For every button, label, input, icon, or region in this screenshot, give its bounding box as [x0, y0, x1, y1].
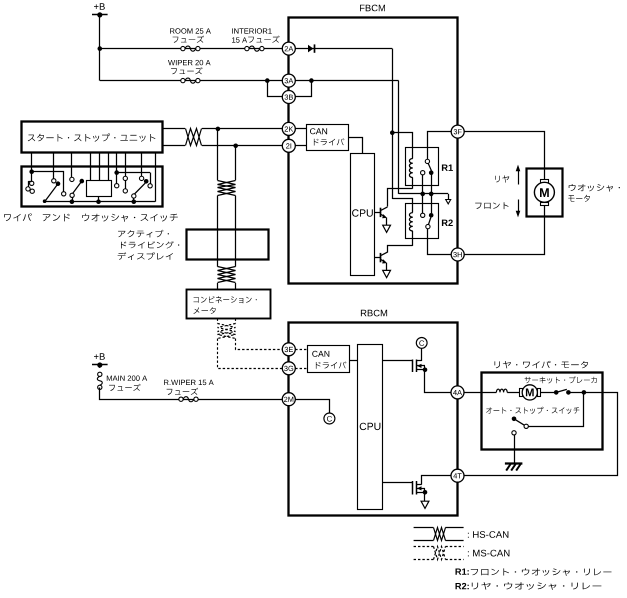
arrow to other circuit — [446, 200, 451, 204]
unit combination meter box — [187, 290, 271, 319]
wire R1 contacts down — [423, 173, 432, 194]
wire start-stop to 2I — [163, 145, 186, 147]
wire M2 drain to 4T — [422, 476, 451, 485]
wire contact common rail — [399, 192, 449, 200]
node 2I — [282, 139, 295, 152]
switch lever 2 — [70, 177, 84, 201]
twisted pair (vertical, upper) — [218, 181, 236, 196]
node 3F — [451, 125, 464, 138]
wire +B to 3A (y=80.6) — [100, 80, 283, 82]
diode D1 and wire 2A to R-coils feed — [295, 44, 392, 52]
relay R1 coil — [409, 159, 412, 189]
capacitor node C (M1 drain) — [416, 338, 427, 362]
wire +B to 2A (y=48.6) — [98, 46, 283, 51]
wire 3A to contacts common — [295, 78, 398, 194]
wire MAIN fuse to 2M — [100, 388, 283, 400]
twisted pair (vertical, lower) — [218, 267, 236, 283]
wire 3B inner link — [296, 81, 312, 97]
label rear wiper motor — [495, 361, 589, 369]
unit start-stop box — [22, 122, 163, 153]
wires start-stop unit to switch — [32, 153, 156, 202]
wire CAN-H down — [217, 129, 219, 180]
switch resistor block — [87, 181, 112, 202]
wire R1/R2 contact links — [423, 194, 432, 213]
node 3A — [282, 74, 295, 87]
label wiper and washer switch — [4, 213, 178, 221]
node 2K — [282, 122, 295, 135]
power supply +B (lower) — [92, 353, 108, 368]
wire 4A into motor — [464, 392, 496, 394]
circuit breaker — [554, 389, 586, 394]
wire coil feed vertical — [390, 49, 395, 199]
transistor Q1 — [374, 207, 387, 225]
capacitor node C (2M) — [324, 413, 335, 424]
fuse INTERIOR1 15 A — [232, 28, 272, 51]
washer motor box — [527, 169, 563, 217]
label 15A fuse — [232, 36, 280, 43]
relay R2 coil — [409, 213, 412, 246]
relay R1 contact — [421, 159, 434, 175]
wire M2 source to ground — [424, 492, 426, 501]
wire CAN-L down — [235, 146, 237, 181]
relay R1 box — [406, 148, 453, 186]
dashed wire to 3E — [236, 339, 283, 350]
wire Q2 collector to R2 coil — [388, 246, 413, 253]
wire washer motor to 3H — [465, 217, 545, 255]
wire 2M to capacitor — [296, 400, 330, 413]
IC CAN driver (RBCM) — [308, 346, 350, 373]
module RBCM box — [289, 310, 458, 516]
wires through display — [218, 229, 236, 266]
node 2M — [282, 393, 295, 406]
wire 3F to washer motor — [465, 132, 545, 169]
label front direction — [475, 202, 508, 209]
fuse MAIN 200 A — [97, 372, 147, 391]
relay R2 contact — [421, 213, 434, 229]
node 3H — [451, 248, 464, 261]
switch box (wiper and washer switch) — [22, 167, 163, 207]
wire 2I to CAN driver — [295, 145, 306, 147]
IC CPU (FBCM) — [351, 154, 375, 276]
wire braid to 2K — [202, 127, 283, 132]
wire feed to R2 coil — [393, 199, 413, 213]
wire start-stop to 2K — [163, 128, 186, 130]
wire braid to 2I — [202, 144, 283, 149]
node 3B — [282, 91, 295, 104]
switch contact group right — [114, 170, 152, 201]
wire pair to combination meter — [218, 283, 236, 290]
wire 3A-3B outer bypass — [265, 78, 283, 96]
twisted pair MS-CAN (dashed) — [218, 324, 236, 339]
label active driving display — [118, 230, 180, 260]
wire feed to R1 coil — [393, 133, 413, 159]
IC CPU (RBCM) — [358, 345, 383, 510]
dashed wire to 3G — [218, 339, 283, 369]
node 3G — [282, 362, 295, 375]
legend HS-CAN text — [468, 531, 509, 538]
dashed stub 3E to CAN driver — [295, 349, 308, 351]
legend HS-CAN symbol — [414, 528, 464, 541]
dashed MS-CAN pair below meter — [218, 319, 236, 324]
rear wiper motor M — [507, 385, 556, 400]
direction arrow down — [516, 200, 521, 218]
unit active driving display box — [187, 230, 269, 260]
wire breaker to 4T loop — [465, 393, 618, 476]
wire 2K to CAN driver — [295, 128, 306, 130]
twisted pair HS-CAN (horizontal) — [186, 129, 202, 146]
ground (Q1 emitter) — [383, 225, 391, 232]
wire 3F to R1 contact — [428, 132, 452, 160]
label washer motor — [568, 184, 620, 202]
label circuit breaker — [525, 376, 597, 383]
legend R1 relay — [456, 568, 612, 576]
power supply +B (top) — [92, 3, 108, 80]
MOSFET M2 (4T output) — [383, 481, 428, 495]
wire CAN driver to CPU (RBCM) — [350, 360, 358, 362]
wire breaker to auto-stop — [529, 393, 584, 427]
label auto stop switch — [486, 407, 579, 414]
fuse R.WIPER 15 A — [164, 380, 214, 402]
transistor Q2 — [374, 252, 387, 270]
MOSFET M1 (4A output) — [383, 360, 428, 373]
wire Q1 collector to R1 coil — [388, 189, 413, 207]
dashed stub 3G to CAN driver — [295, 368, 308, 370]
ground (M2 source) — [421, 501, 429, 508]
switch contact group left — [26, 169, 66, 203]
auto stop switch — [512, 417, 529, 464]
node 4T — [451, 469, 464, 482]
washer motor M — [534, 168, 554, 216]
legend MS-CAN symbol — [414, 547, 464, 560]
armature coil — [496, 389, 507, 392]
node 2A — [282, 42, 295, 55]
fuse WIPER 20 A — [168, 60, 211, 83]
relay R2 box — [406, 204, 453, 239]
switch common rail — [45, 199, 156, 204]
node 4A — [451, 386, 464, 399]
legend R2 relay — [456, 582, 602, 590]
wire pair to display — [218, 196, 236, 230]
wire R2 contact to 3H — [428, 229, 452, 255]
node 3E — [282, 343, 295, 356]
wire M1 to 4A — [425, 370, 452, 393]
unit rear wiper motor box — [482, 373, 603, 450]
chassis ground (auto stop) — [505, 464, 523, 471]
label rear direction — [495, 175, 509, 182]
direction arrow up — [516, 165, 521, 185]
fuse ROOM 25 A — [170, 28, 211, 51]
wire CAN driver to CPU — [349, 138, 363, 154]
module FBCM box — [289, 5, 458, 284]
IC CAN driver (FBCM) — [307, 125, 349, 151]
legend MS-CAN text — [468, 550, 510, 557]
ground (Q2 emitter) — [383, 270, 391, 277]
